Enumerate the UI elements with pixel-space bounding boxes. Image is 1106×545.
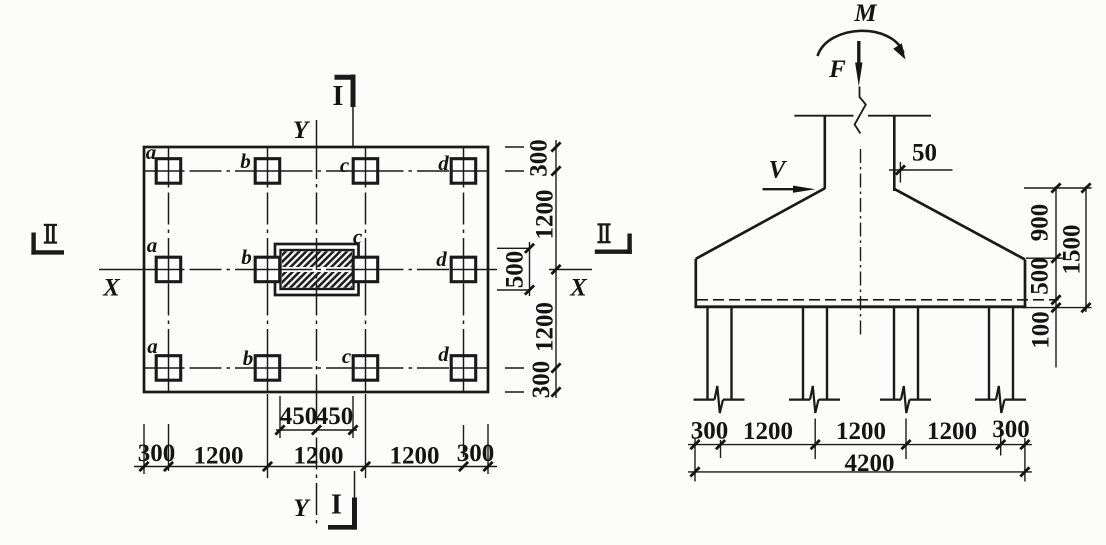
svg-text:1200: 1200 [294, 443, 344, 470]
svg-text:1200: 1200 [532, 190, 559, 240]
svg-text:100: 100 [1028, 311, 1055, 349]
svg-text:1200: 1200 [532, 302, 559, 352]
svg-text:300: 300 [992, 416, 1030, 443]
svg-text:a: a [146, 140, 157, 164]
svg-text:1200: 1200 [390, 443, 440, 470]
svg-text:b: b [241, 245, 252, 269]
svg-text:b: b [240, 149, 251, 173]
svg-text:900: 900 [1027, 204, 1054, 242]
svg-text:X: X [569, 275, 588, 302]
svg-text:1200: 1200 [743, 418, 793, 445]
svg-text:c: c [353, 225, 363, 249]
svg-text:450: 450 [280, 403, 318, 430]
svg-text:a: a [147, 233, 158, 257]
svg-text:M: M [853, 0, 877, 27]
svg-text:4200: 4200 [845, 450, 895, 477]
svg-text:1200: 1200 [927, 418, 977, 445]
svg-text:V: V [769, 157, 788, 184]
svg-text:d: d [438, 151, 449, 175]
svg-text:1200: 1200 [836, 418, 886, 445]
svg-text:d: d [436, 247, 447, 271]
svg-text:300: 300 [526, 139, 553, 177]
svg-text:F: F [828, 56, 846, 83]
svg-text:d: d [438, 342, 449, 366]
svg-text:50: 50 [912, 140, 937, 167]
svg-text:b: b [243, 346, 254, 370]
svg-text:450: 450 [316, 403, 354, 430]
svg-text:c: c [342, 344, 352, 368]
svg-text:300: 300 [138, 440, 176, 467]
svg-text:I: I [333, 81, 344, 112]
svg-text:500: 500 [502, 251, 529, 289]
svg-text:300: 300 [457, 440, 495, 467]
svg-text:X: X [102, 275, 121, 302]
svg-text:300: 300 [691, 418, 729, 445]
svg-text:500: 500 [1027, 257, 1054, 295]
svg-text:1200: 1200 [194, 443, 244, 470]
svg-text:1500: 1500 [1059, 225, 1086, 275]
svg-text:300: 300 [528, 361, 555, 399]
svg-text:I: I [331, 490, 342, 521]
svg-text:a: a [147, 334, 158, 358]
svg-text:c: c [340, 153, 350, 177]
